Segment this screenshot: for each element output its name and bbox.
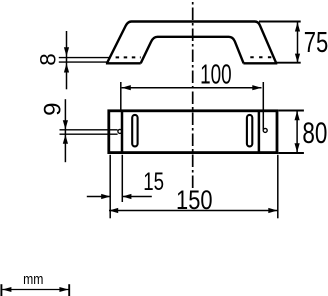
svg-text:150: 150 — [176, 185, 213, 215]
svg-text:15: 15 — [143, 168, 164, 196]
svg-text:9: 9 — [40, 103, 67, 116]
svg-text:mm: mm — [23, 272, 43, 288]
svg-text:100: 100 — [200, 58, 232, 89]
svg-text:75: 75 — [304, 27, 328, 59]
svg-text:8: 8 — [35, 53, 60, 66]
svg-text:80: 80 — [302, 117, 327, 150]
